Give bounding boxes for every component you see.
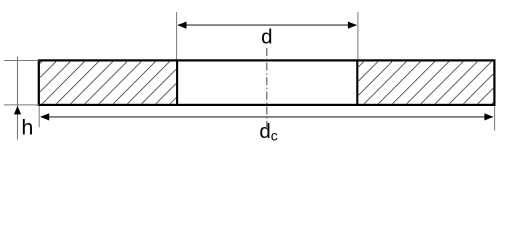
hole left edge — [176, 59, 178, 106]
hatching left section — [40, 62, 176, 104]
svg-text:h: h — [21, 116, 33, 140]
svg-text:d: d — [261, 25, 272, 48]
arrowhead d right — [348, 22, 357, 29]
extension line right of dc — [494, 106, 496, 130]
washer outline — [39, 60, 495, 105]
arrowhead h up — [14, 106, 21, 115]
dimension line h — [17, 57, 19, 140]
extension line left of d — [176, 12, 178, 60]
dimension line dc — [41, 116, 493, 118]
extension line left of dc — [38, 106, 40, 127]
dimension line d — [178, 24, 356, 26]
extension line right of d — [357, 12, 359, 60]
washer cross-section technical drawing — [0, 0, 514, 159]
arrowhead dc right — [484, 113, 493, 120]
hole right edge — [356, 59, 358, 106]
arrowhead dc left — [40, 113, 49, 120]
hatching right section — [358, 62, 493, 104]
centerline — [266, 48, 268, 128]
extension line h top — [4, 60, 39, 62]
extension line h bottom — [4, 104, 39, 106]
arrowhead d left — [178, 22, 187, 29]
